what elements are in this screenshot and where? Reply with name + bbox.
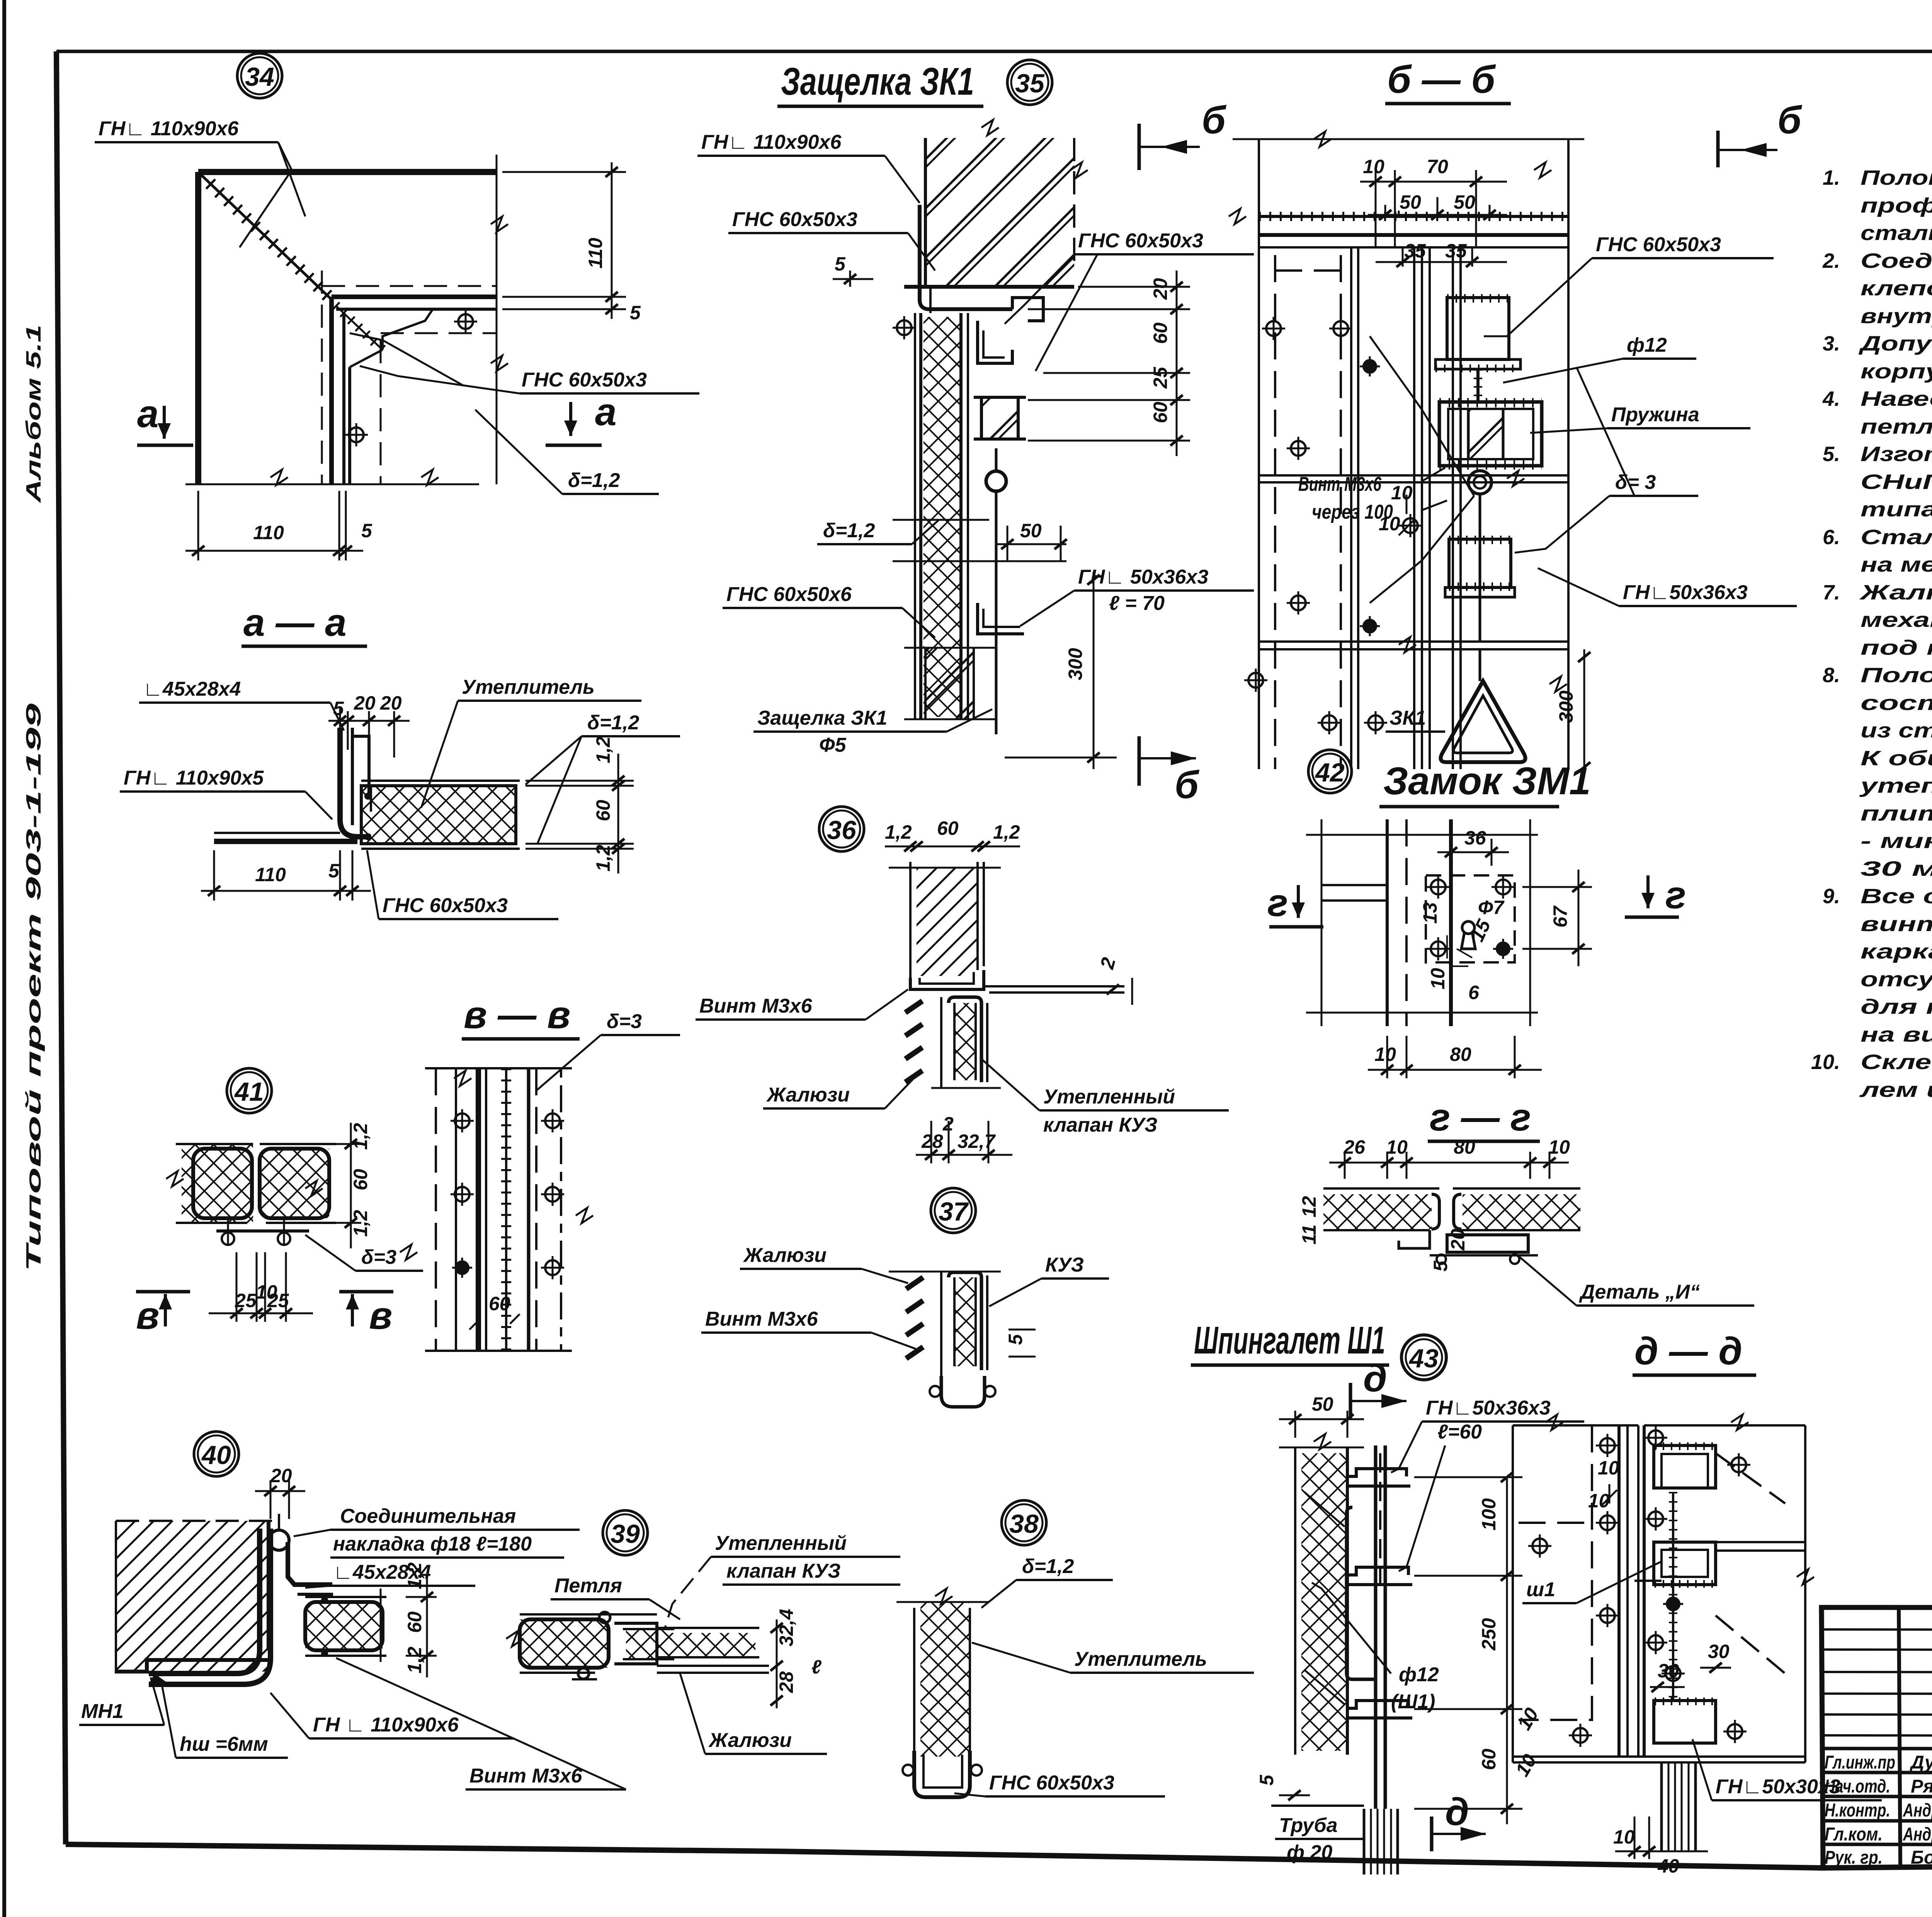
svg-text:винты М3х6 ГОСТ 10299-80 с: винты М3х6 ГОСТ 10299-80 сверлить в раме [1861, 913, 1932, 936]
svg-text:д — д: д — д [1634, 1330, 1742, 1373]
svg-text:Жалюзи: Жалюзи [766, 1084, 850, 1106]
bottom dims 25 10 25 [236, 1252, 238, 1322]
svg-text:25: 25 [235, 1290, 257, 1311]
svg-text:Винт М3х6: Винт М3х6 [699, 995, 813, 1017]
svg-text:δ=1,2: δ=1,2 [587, 712, 639, 734]
keyhole [1462, 921, 1475, 934]
svg-text:35: 35 [1015, 69, 1045, 98]
svg-text:Утепленный: Утепленный [715, 1532, 847, 1554]
svg-text:ГН∟ 110х90х5: ГН∟ 110х90х5 [124, 767, 264, 789]
svg-text:из стального листа толщиной: из стального листа толщиной 1,2 мм. [1861, 719, 1932, 742]
svg-text:50: 50 [1400, 191, 1421, 213]
svg-text:ГН∟ 110х90х6: ГН∟ 110х90х6 [701, 131, 842, 153]
svg-text:1,2: 1,2 [404, 1562, 425, 1589]
svg-text:в: в [369, 1294, 392, 1337]
svg-text:Петля: Петля [554, 1575, 622, 1597]
svg-text:б: б [1777, 99, 1803, 142]
svg-text:корпусу электросваркой.: корпусу электросваркой. [1861, 360, 1932, 383]
svg-text:д: д [1363, 1357, 1387, 1400]
svg-text:5.: 5. [1823, 443, 1840, 466]
svg-text:отсутствии соответствующего: отсутствии соответствующего оборудования [1861, 968, 1932, 991]
bolt rod vertical [1374, 1445, 1378, 1809]
svg-text:35: 35 [1445, 240, 1467, 262]
bottom dimension line [185, 484, 479, 485]
bolt stem [1476, 369, 1480, 402]
svg-text:Полотно ворот и утепленных: Полотно ворот и утепленных клапанов [1861, 664, 1932, 687]
svg-text:60: 60 [592, 800, 614, 821]
lock view: door edge vertical lines [1386, 819, 1389, 1026]
svg-text:плит ГОСТ 10140-80 толщиной: плит ГОСТ 10140-80 толщиной 60 мм, для к… [1861, 802, 1932, 825]
svg-text:каркаса и листах обшивки с: каркаса и листах обшивки совместно. При [1861, 940, 1932, 963]
svg-text:4.: 4. [1822, 387, 1840, 410]
section b mark top right [1138, 124, 1141, 170]
bolts under blocks [222, 1233, 234, 1245]
svg-text:28: 28 [776, 1671, 797, 1693]
svg-text:28: 28 [921, 1130, 943, 1152]
svg-text:10: 10 [1374, 1044, 1396, 1065]
svg-text:20: 20 [1447, 1229, 1469, 1251]
hinge knuckle [599, 1612, 610, 1623]
svg-text:- минеральной ватой ГОСТ 46: - минеральной ватой ГОСТ 4640-76, толщин… [1861, 829, 1932, 853]
svg-text:Рябуха: Рябуха [1911, 1776, 1932, 1797]
svg-text:Допускается выполнять крепле: Допускается выполнять крепление обшивки … [1859, 332, 1932, 355]
svg-text:внутренней стороны.: внутренней стороны. [1861, 305, 1932, 328]
lower wall hatched [925, 648, 974, 719]
keyhole dashed plate [1426, 875, 1515, 962]
svg-text:Утеплитель: Утеплитель [462, 676, 595, 698]
v-v vertical member lines [435, 1068, 437, 1351]
det38 vertical hatched bar [913, 1608, 915, 1751]
insulation crosshatch [361, 786, 516, 844]
node circle 39 [603, 1510, 648, 1555]
node circle 35 [1007, 60, 1052, 105]
dims 32,4 28 l [776, 1619, 778, 1708]
svg-text:5: 5 [630, 302, 641, 323]
svg-text:∟45х28х4: ∟45х28х4 [143, 678, 241, 700]
svg-text:КУЗ: КУЗ [1045, 1254, 1084, 1276]
svg-text:10: 10 [1598, 1457, 1619, 1479]
breaks [1546, 1415, 1563, 1430]
left signature table columns [1899, 1608, 1900, 1867]
svg-text:г — г: г — г [1430, 1096, 1531, 1139]
svg-text:13: 13 [1419, 902, 1441, 924]
node circle 43 [1401, 1335, 1446, 1380]
main vertical sandwich column [914, 313, 916, 719]
svg-text:10: 10 [1548, 1136, 1570, 1158]
weld seam diagonal with ticks [201, 175, 330, 298]
top bracket [1347, 1469, 1406, 1476]
svg-text:Винт М3х6: Винт М3х6 [469, 1765, 583, 1787]
plate screws [1427, 875, 1450, 899]
bottom dims 110 5 [213, 850, 215, 901]
node circle 34 [237, 53, 282, 98]
break squiggles on right dim [491, 216, 508, 232]
angle under wall [920, 205, 1012, 309]
horizontal break lines mid [893, 519, 989, 521]
svg-text:30 мм.: 30 мм. [1861, 857, 1932, 880]
latch top hook [1012, 298, 1043, 321]
horizontal strap to right [1716, 1542, 1805, 1551]
node circle 40 [194, 1432, 239, 1476]
node circle 42 [1308, 750, 1352, 793]
connector plate to right [984, 985, 1124, 987]
frame dash rect left [1274, 255, 1276, 769]
svg-text:60: 60 [1150, 402, 1171, 423]
svg-text:20: 20 [270, 1465, 292, 1486]
svg-text:МН1: МН1 [81, 1700, 124, 1723]
svg-text:ф12: ф12 [1627, 334, 1667, 356]
kuz block inner [1347, 1507, 1376, 1679]
svg-text:Изготовление и монтаж произво: Изготовление и монтаж производить в соот… [1861, 443, 1932, 466]
spring hatched core [1468, 409, 1503, 459]
latch channel right [978, 321, 1012, 363]
svg-text:Альбом 5.1: Альбом 5.1 [22, 325, 45, 504]
svg-text:1,2: 1,2 [993, 821, 1020, 843]
svg-text:10: 10 [1363, 156, 1384, 177]
det37 klapan bar [889, 1271, 1001, 1273]
right dimension 110 / 5 [496, 155, 498, 484]
central double bars [1617, 1425, 1621, 1757]
svg-text:δ=1,2: δ=1,2 [823, 519, 875, 542]
page frame [56, 50, 1932, 53]
svg-text:Навеска полотен выполняется: Навеска полотен выполняется на индивидуа… [1861, 387, 1932, 410]
svg-text:10: 10 [1427, 968, 1449, 989]
svg-text:г: г [1267, 881, 1288, 924]
svg-text:41: 41 [234, 1077, 264, 1107]
svg-text:ℓ = 70: ℓ = 70 [1109, 592, 1165, 615]
svg-text:δ=1,2: δ=1,2 [568, 469, 620, 492]
top rail [1259, 215, 1568, 218]
svg-text:9.: 9. [1823, 885, 1840, 908]
scan left edge artifact [2, 0, 6, 1917]
svg-text:ГН∟50х36х3: ГН∟50х36х3 [1426, 1397, 1551, 1419]
svg-text:Жалюзи: Жалюзи [708, 1729, 792, 1752]
svg-text:ГНС 60х50х3: ГНС 60х50х3 [1596, 233, 1721, 256]
svg-text:20: 20 [1150, 278, 1171, 300]
horizontal bars left [1321, 884, 1387, 886]
svg-text:6.: 6. [1823, 526, 1840, 549]
svg-text:1.: 1. [1823, 166, 1840, 189]
svg-text:1,2: 1,2 [592, 736, 614, 763]
svg-text:80: 80 [1450, 1044, 1471, 1065]
screws in v-v [451, 1109, 474, 1132]
svg-text:Н.контр.: Н.контр. [1825, 1800, 1890, 1821]
svg-text:250: 250 [1478, 1618, 1500, 1651]
svg-text:Все отверстия под заклепки: Все отверстия под заклепки d = 3, самона… [1861, 885, 1932, 908]
hinge pin circle [269, 1530, 289, 1550]
svg-text:5: 5 [1430, 1260, 1451, 1272]
angle horizontal leg [214, 832, 340, 834]
svg-text:ГН∟50х30х3: ГН∟50х30х3 [1716, 1776, 1840, 1798]
svg-text:Замок ЗМ1: Замок ЗМ1 [1383, 759, 1591, 803]
svg-text:а: а [595, 390, 617, 434]
svg-text:клапан КУЗ: клапан КУЗ [726, 1560, 840, 1582]
svg-text:Полотна и двери выполняются в: Полотна и двери выполняются в виде карка… [1861, 166, 1932, 189]
svg-text:43: 43 [1408, 1344, 1439, 1373]
door leaf edge lines [1350, 247, 1352, 769]
svg-text:типа Э42 по ГОСТ 9467-75.: типа Э42 по ГОСТ 9467-75. [1861, 498, 1932, 521]
svg-text:30: 30 [1658, 1660, 1679, 1682]
svg-text:на месте их изготовления.: на месте их изготовления. [1861, 553, 1932, 576]
main title block outline [1821, 1607, 1932, 1868]
bolt circle below [1468, 471, 1492, 494]
svg-text:Защелка ЗК1: Защелка ЗК1 [781, 60, 974, 103]
section d mark top [1349, 1383, 1352, 1419]
svg-text:37: 37 [939, 1197, 969, 1226]
svg-text:Думан: Думан [1909, 1752, 1932, 1773]
svg-text:Утепленный: Утепленный [1043, 1086, 1175, 1108]
svg-text:ГНС 60х50х3: ГНС 60х50х3 [989, 1772, 1114, 1794]
svg-text:30: 30 [1708, 1641, 1730, 1662]
d-d view outer rect [1513, 1424, 1638, 1427]
pull ring [986, 471, 1006, 491]
det37 louvers [906, 1277, 923, 1289]
diagonal dashed cut corner [1716, 1453, 1785, 1674]
det37 bottom hook [941, 1376, 985, 1407]
svg-text:5: 5 [1256, 1774, 1277, 1786]
svg-text:hш =6мм: hш =6мм [180, 1733, 268, 1755]
svg-text:Шпингалет Ш1: Шпингалет Ш1 [1194, 1319, 1385, 1362]
L45 small angle top [352, 736, 369, 794]
svg-text:СНиП III-18-75. Сварку выполн: СНиП III-18-75. Сварку выполнить электро… [1861, 470, 1932, 494]
svg-text:3.: 3. [1823, 332, 1840, 355]
svg-text:лем и каркасом производить: лем и каркасом производить эпоксидным кл… [1859, 1078, 1932, 1102]
svg-text:δ=3: δ=3 [361, 1246, 396, 1268]
svg-text:б — б: б — б [1387, 58, 1496, 101]
svg-text:5: 5 [361, 520, 372, 541]
left table row lines [1821, 1629, 1932, 1630]
dims 10 40 bottom [1634, 1817, 1636, 1859]
svg-text:20: 20 [380, 692, 402, 714]
svg-text:10.: 10. [1811, 1050, 1840, 1074]
angle vertical leg [340, 728, 371, 837]
svg-text:ГНС 60х50х3: ГНС 60х50х3 [732, 208, 857, 231]
vertical ticked line right of bars [1672, 1492, 1674, 1701]
svg-text:32,4: 32,4 [776, 1609, 797, 1646]
svg-text:ЗК1: ЗК1 [1389, 707, 1426, 729]
svg-text:60: 60 [1478, 1748, 1500, 1770]
break top [981, 120, 999, 135]
svg-text:г: г [1665, 873, 1686, 917]
top dims 10 70 / 50 50 / 35 35 [1375, 170, 1377, 247]
dim 5 top left [849, 271, 851, 287]
svg-text:клепочным с фасадной стороны: клепочным с фасадной стороны и винтовым … [1861, 277, 1932, 300]
rod down [995, 491, 998, 734]
svg-text:40: 40 [1657, 1855, 1679, 1877]
svg-text:ф12: ф12 [1399, 1663, 1439, 1686]
central stile [1413, 247, 1415, 769]
svg-text:80: 80 [1454, 1136, 1475, 1158]
svg-text:δ= 3: δ= 3 [1615, 471, 1656, 494]
top dims 5 20 20 [339, 707, 341, 758]
det41 left block [193, 1149, 252, 1218]
lower bracket [978, 603, 1024, 634]
node circle 41 [227, 1068, 272, 1113]
svg-text:1,2: 1,2 [885, 821, 912, 843]
svg-text:42: 42 [1315, 758, 1345, 787]
svg-text:под марками СТД 300 и СТД: под марками СТД 300 и СТД 301. [1861, 636, 1932, 659]
svg-text:110: 110 [253, 522, 284, 543]
svg-text:2.: 2. [1822, 249, 1840, 272]
dims right 100 250 60 [1506, 1476, 1508, 1824]
svg-text:(Ш1): (Ш1) [1391, 1691, 1435, 1713]
middle bracket [1347, 1567, 1408, 1575]
top/bottom edge ticks [425, 1067, 572, 1069]
right angle L45 [288, 1542, 332, 1585]
bottom pipe hatched [1363, 1809, 1366, 1874]
g-g right panel [1453, 1187, 1580, 1190]
svg-text:36: 36 [1464, 827, 1486, 849]
svg-text:стального листа толщиной 1,: стального листа толщиной 1,2 мм. [1861, 221, 1932, 245]
bottom channel of wall [910, 970, 984, 989]
svg-text:50: 50 [1454, 191, 1475, 213]
svg-text:1,2: 1,2 [404, 1646, 425, 1674]
svg-text:60: 60 [1150, 322, 1171, 344]
svg-text:Гл.ком.: Гл.ком. [1825, 1824, 1883, 1845]
svg-text:2: 2 [942, 1113, 954, 1135]
dims right of panel 1.2 60 1.2 [406, 1596, 437, 1598]
wall block hatched [116, 1521, 269, 1672]
svg-text:ГНС 60х50х3: ГНС 60х50х3 [1078, 230, 1203, 252]
svg-text:25: 25 [1150, 366, 1171, 389]
svg-text:38: 38 [1009, 1509, 1039, 1539]
wall inner edge [267, 1521, 270, 1650]
svg-text:в — в: в — в [464, 993, 570, 1037]
svg-text:ф 20: ф 20 [1287, 1841, 1332, 1864]
svg-text:б: б [1202, 99, 1227, 142]
svg-text:40: 40 [201, 1440, 231, 1470]
svg-text:50: 50 [1312, 1393, 1333, 1415]
svg-text:5: 5 [835, 253, 846, 275]
screws [454, 310, 477, 333]
svg-text:300: 300 [1555, 690, 1577, 723]
bottom latch plate [1449, 539, 1511, 587]
svg-text:Гл.инж.пр: Гл.инж.пр [1825, 1752, 1895, 1773]
svg-text:механический завод N1 „Са: механический завод N1 „Сантехдеталь“ [1861, 608, 1932, 632]
svg-text:а: а [137, 392, 159, 436]
svg-text:Ф7: Ф7 [1478, 897, 1505, 918]
svg-text:70: 70 [1427, 156, 1448, 177]
svg-text:Пружина: Пружина [1611, 403, 1699, 426]
svg-text:ℓ=60: ℓ=60 [1437, 1421, 1482, 1443]
svg-text:Соединительная: Соединительная [340, 1505, 516, 1527]
svg-text:11: 11 [1298, 1224, 1320, 1245]
dims 10 80 bottom [1386, 1036, 1388, 1078]
svg-text:Рук. гр.: Рук. гр. [1825, 1847, 1883, 1868]
svg-text:60: 60 [937, 817, 959, 839]
det36 wall hatched column [909, 862, 912, 978]
inner dashed frame [1519, 1425, 1592, 1720]
svg-text:д: д [1445, 1790, 1469, 1834]
insulation block outline [361, 786, 516, 844]
svg-text:петлях, которые привариваютс: петлях, которые привариваются к раме. [1861, 415, 1932, 438]
g-g section: left panel [1323, 1187, 1439, 1190]
det39/40 insulated panel right [305, 1602, 383, 1650]
svg-text:110: 110 [585, 238, 606, 269]
breaks [1314, 131, 1331, 147]
det41 right block [260, 1149, 329, 1218]
right dims 1.2 60 1.2 [526, 780, 634, 782]
node circle 36 [819, 807, 864, 851]
svg-text:накладка ф18 ℓ=180: накладка ф18 ℓ=180 [333, 1533, 532, 1555]
inner angle vertical [329, 297, 334, 484]
upper latch plate with ticks [1447, 298, 1509, 359]
svg-text:10: 10 [1386, 1136, 1408, 1158]
outer corner profile (thick) [198, 169, 497, 175]
svg-text:клапан КУЗ: клапан КУЗ [1043, 1114, 1157, 1136]
svg-text:на винтах с двух сторон.: на винтах с двух сторон. [1861, 1023, 1932, 1046]
right dims 20 60 25 60 [1078, 286, 1190, 288]
bolt keeper boxes with tick hatch [1654, 1445, 1716, 1488]
svg-text:ГНС 60х50х3: ГНС 60х50х3 [383, 894, 508, 917]
dims above g-g: 26 10 80 10 [1344, 1152, 1346, 1179]
svg-text:1,2: 1,2 [592, 844, 614, 872]
node circle 37 [931, 1188, 976, 1233]
dashed lines [321, 271, 323, 484]
svg-text:ГНС 60х50х3: ГНС 60х50х3 [522, 369, 647, 391]
svg-text:Соединение обшивки с каркас: Соединение обшивки с каркасом полотен пр… [1861, 249, 1932, 272]
svg-text:ГН∟ 110х90х6: ГН∟ 110х90х6 [99, 117, 239, 140]
screws on left frame [1262, 317, 1285, 340]
svg-text:Склеивание стальных листов о: Склеивание стальных листов обшивки с уте… [1861, 1050, 1932, 1074]
svg-text:35: 35 [1404, 240, 1426, 262]
svg-text:1,2: 1,2 [350, 1210, 371, 1237]
section b mark top right of b-b [1716, 131, 1720, 167]
wall hatched top [925, 138, 1074, 287]
klapan bar [940, 997, 942, 1088]
svg-text:8.: 8. [1823, 664, 1840, 687]
svg-text:Утеплитель: Утеплитель [1074, 1648, 1207, 1670]
svg-text:1,2: 1,2 [350, 1123, 371, 1150]
mid horizontal rails [1259, 474, 1568, 477]
svg-text:Андриевская: Андриевская [1903, 1800, 1932, 1821]
svg-text:32,7: 32,7 [957, 1130, 996, 1152]
bottom pipe hatched d-d [1660, 1762, 1663, 1851]
right dims 1.2 60 1.2 [336, 1143, 361, 1145]
thin sheets around insulation [361, 780, 520, 782]
det38 bottom channel [914, 1751, 970, 1797]
svg-text:5: 5 [333, 698, 344, 719]
spring box [1439, 402, 1542, 466]
svg-text:δ=1,2: δ=1,2 [1022, 1555, 1074, 1578]
connecting strap bottom [216, 1229, 309, 1233]
svg-text:ГНС 60х50х6: ГНС 60х50х6 [726, 583, 852, 606]
svg-text:36: 36 [827, 815, 857, 845]
svg-text:10: 10 [1391, 482, 1413, 504]
svg-text:состоят из каркаса с двухс: состоят из каркаса с двухсторонней обшив… [1861, 691, 1932, 715]
dims 28 2 32,7 [930, 1121, 932, 1163]
break marks [166, 1171, 184, 1187]
svg-text:300: 300 [1065, 648, 1086, 680]
section b mark bottom [1138, 736, 1141, 786]
fastener dots [364, 793, 371, 800]
det39 panel sandwich [520, 1619, 609, 1668]
break marks [454, 1071, 471, 1086]
lower bracket [1347, 1701, 1408, 1708]
svg-text:а — а: а — а [243, 601, 347, 644]
inner sheet step contour [383, 309, 433, 350]
svg-text:Жалюзи: Жалюзи [743, 1244, 827, 1267]
svg-text:5: 5 [328, 860, 340, 882]
corner angle profile thick [149, 1529, 260, 1674]
inner weld seam ticks [335, 305, 383, 350]
svg-text:12: 12 [1298, 1196, 1320, 1217]
svg-text:60: 60 [404, 1611, 425, 1633]
svg-text:60: 60 [489, 1293, 510, 1314]
svg-text:34: 34 [245, 62, 274, 92]
screws in d-d [1596, 1434, 1619, 1457]
break mark [506, 1631, 524, 1646]
